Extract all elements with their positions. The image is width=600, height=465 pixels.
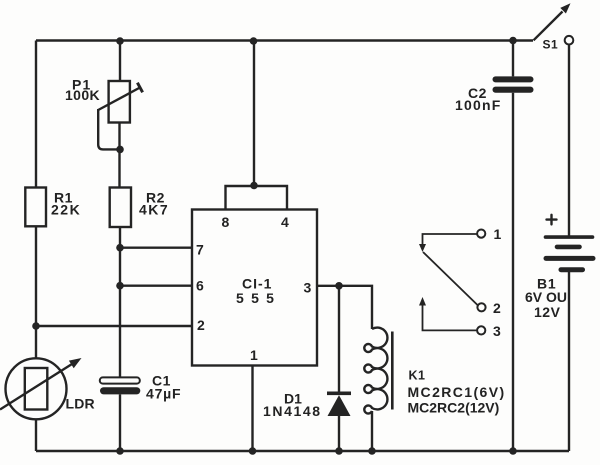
svg-text:100nF: 100nF: [455, 97, 501, 113]
wire P1 bottom to R2: [118, 123, 120, 188]
D1 cathode bar: [327, 392, 351, 396]
svg-text:47µF: 47µF: [146, 386, 181, 402]
junction pin 6 / C1 branch: [116, 282, 124, 290]
wire C2 branch: [512, 41, 514, 452]
wire pin 1 to bottom rail: [251, 366, 253, 452]
contact terminal 3 circle: [477, 326, 485, 334]
wire IC supply (top rail to bracket): [253, 41, 255, 187]
capacitor C1: [100, 373, 182, 402]
junction bottom rail / K1: [368, 447, 376, 455]
wire P1 wiper loop: [98, 109, 120, 149]
wire bottom rail: [36, 450, 569, 452]
junction pin 3 / D1: [335, 282, 343, 290]
svg-text:5 5 5: 5 5 5: [236, 290, 276, 306]
svg-text:4K7: 4K7: [139, 202, 169, 218]
moving contact arm to terminal 2: [423, 252, 478, 305]
svg-text:6V OU: 6V OU: [525, 289, 567, 305]
wire bracket pins 8-4: [226, 186, 288, 210]
wire pin 3 to relay coil: [317, 286, 372, 329]
svg-text:2: 2: [493, 300, 501, 316]
LDR: [0, 358, 95, 419]
junction top rail / P1: [116, 37, 124, 45]
svg-text:LDR: LDR: [66, 396, 95, 412]
junction bottom rail / C1: [116, 447, 124, 455]
svg-text:2: 2: [197, 317, 205, 333]
S1 blade arrowhead: [560, 3, 570, 13]
svg-text:8: 8: [222, 214, 230, 230]
wire R2 to C1: [119, 227, 121, 377]
svg-text:12V: 12V: [534, 304, 561, 320]
wire terminal 3 with pole arrow: [423, 306, 478, 331]
svg-text:4: 4: [281, 214, 289, 230]
relay coil K1: [364, 328, 505, 416]
junction top rail / IC supply: [250, 37, 258, 45]
junction bottom rail / C2 branch: [509, 447, 517, 455]
capacitor C2: [455, 76, 534, 113]
P1 wiper tip bar: [137, 83, 142, 93]
svg-text:100K: 100K: [65, 87, 100, 103]
P1 wiper arm: [98, 88, 140, 111]
battery plus sign: [547, 215, 557, 225]
resistor R2: [110, 188, 169, 228]
battery plate long 1: [546, 235, 593, 239]
wire top rail: [36, 39, 533, 41]
battery plate short 2: [561, 267, 583, 272]
junction bottom rail / pin 1: [249, 447, 257, 455]
svg-text:3: 3: [493, 323, 501, 339]
wire coil bottom: [371, 411, 373, 451]
K1 coil winding: [364, 328, 387, 414]
wire terminal 1 with pole arrow: [423, 234, 478, 245]
D1 anode triangle: [328, 395, 351, 416]
S1 terminal circle: [565, 36, 574, 45]
svg-text:1N4148: 1N4148: [263, 403, 322, 419]
svg-text:S1: S1: [543, 38, 559, 52]
junction bottom rail / D1: [335, 447, 343, 455]
pole arrowhead up: [419, 297, 426, 306]
LDR arrowhead: [69, 358, 82, 368]
svg-text:1: 1: [494, 226, 502, 242]
wire P1 top: [119, 41, 121, 82]
svg-text:1: 1: [250, 347, 258, 363]
junction R2 / pin 7: [116, 244, 124, 252]
wire left rail middle (R1 to LDR): [35, 226, 37, 359]
relay contacts: [419, 226, 502, 339]
wire D1 top: [338, 286, 340, 392]
potentiometer P1: [65, 77, 143, 123]
wire right rail upper (S1 to battery): [568, 43, 570, 236]
pole arrowhead down: [419, 244, 426, 252]
junction bracket pins 8-4: [250, 182, 258, 190]
battery B1: [525, 215, 593, 320]
S1 blade: [534, 12, 563, 41]
C1 negative plate: [100, 387, 140, 394]
wire pin 6: [120, 285, 192, 287]
svg-text:7: 7: [196, 242, 204, 258]
wire pin 7: [120, 246, 192, 248]
C2 top plate: [493, 76, 534, 82]
junction P1 wiper / bottom terminal: [116, 146, 124, 154]
wire pin 2: [36, 325, 192, 327]
svg-text:MC2RC1(6V): MC2RC1(6V): [408, 384, 506, 400]
switch S1: [534, 3, 574, 51]
battery plate short 1: [557, 245, 580, 250]
C2 bottom plate: [493, 87, 534, 93]
wire C1 bottom: [119, 394, 121, 451]
diode D1: [263, 391, 351, 420]
wire left rail upper (top rail to R1): [35, 41, 37, 189]
junction left rail / pin 2: [32, 322, 40, 330]
wire left rail lower (LDR to bottom rail): [35, 419, 37, 452]
svg-text:22K: 22K: [51, 202, 81, 218]
resistor R1: [25, 188, 81, 227]
svg-text:6: 6: [196, 278, 204, 294]
junction top rail / C2 / S1: [509, 37, 517, 45]
wire LDR internal stubs: [35, 358, 37, 419]
IC U1 timer CI-1 555 body: [192, 210, 317, 366]
contact terminal 2 circle: [477, 303, 485, 311]
LDR light arrow: [0, 364, 72, 410]
relay core bar: [391, 332, 394, 410]
wire right rail lower (battery to bottom rail): [568, 272, 570, 451]
battery plate long 2: [546, 256, 593, 261]
svg-text:3: 3: [304, 280, 312, 296]
wire D1 bottom: [338, 416, 340, 452]
svg-text:K1: K1: [409, 369, 426, 383]
C1 positive plate: [100, 377, 140, 383]
contact terminal 1 circle: [477, 230, 485, 238]
svg-text:MC2RC2(12V): MC2RC2(12V): [408, 400, 500, 416]
